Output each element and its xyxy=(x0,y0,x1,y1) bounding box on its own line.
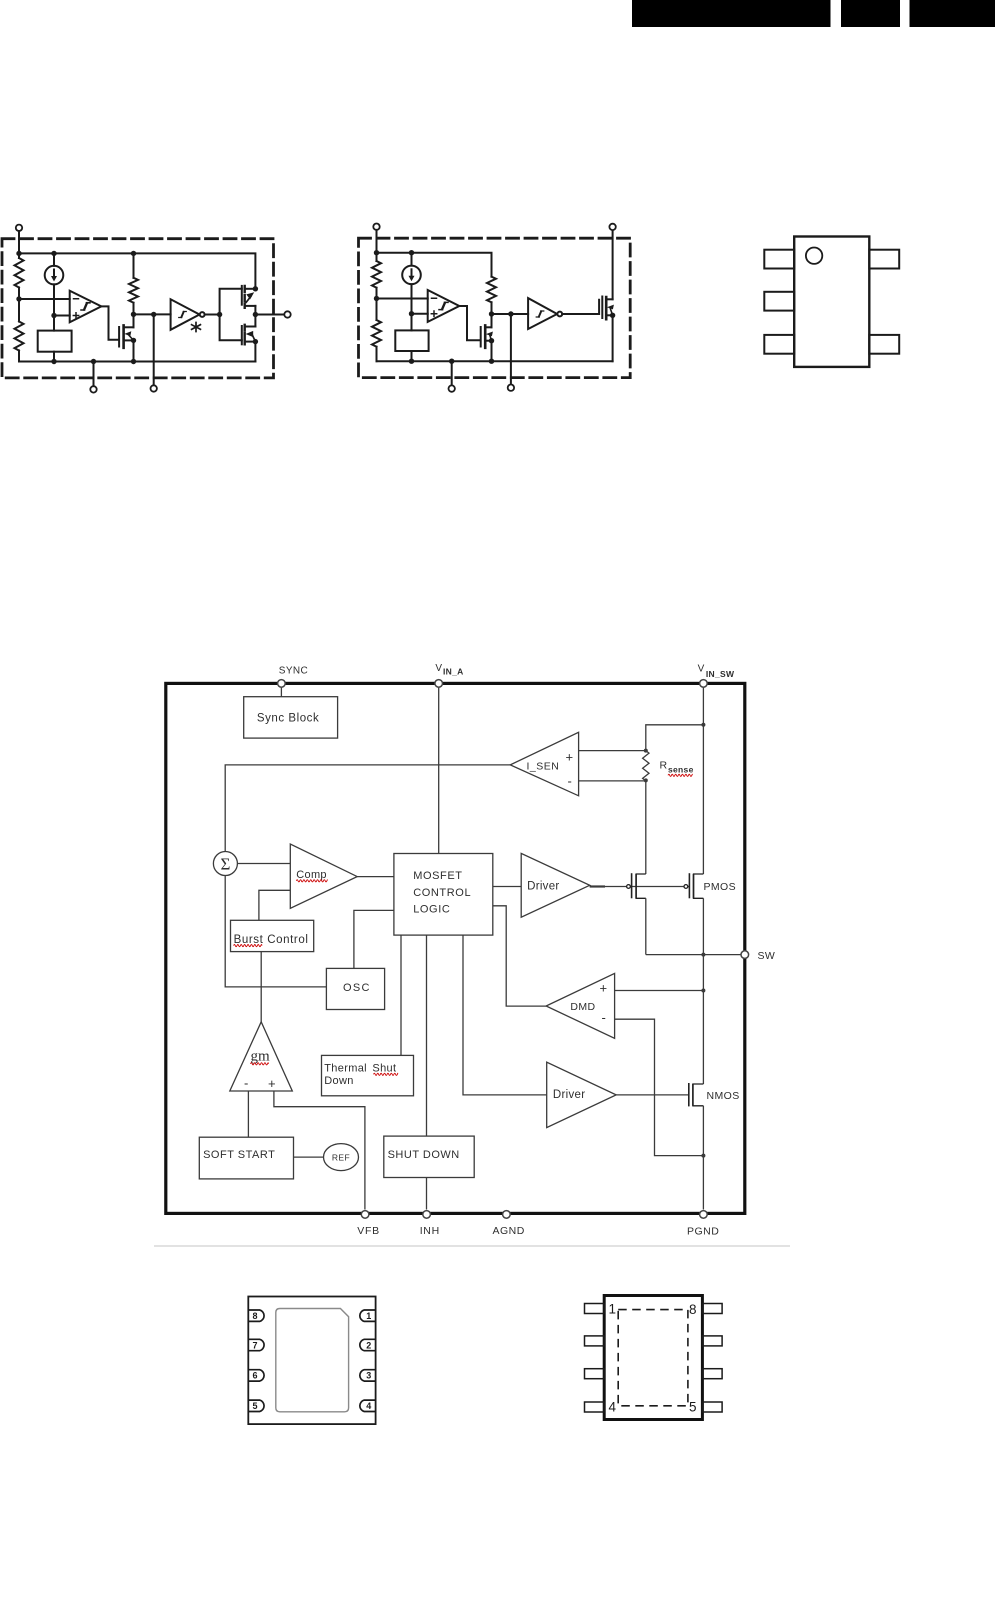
svg-text:MOSFET: MOSFET xyxy=(413,870,462,882)
current source I1 circuit 2 xyxy=(402,253,421,331)
dashed cell boundary circuit 2 xyxy=(359,238,631,377)
transistor M1 (NMOS pulldown, circuit 1) xyxy=(119,325,133,347)
package body SOT-23-5 xyxy=(794,237,869,367)
svg-text:gm: gm xyxy=(251,1049,271,1065)
wire comparator output to M1 gate circuit 2 xyxy=(459,306,479,340)
wire gm minus to SOFT START xyxy=(247,1091,249,1137)
reference block U1 (unlabeled box, circuit 2) xyxy=(395,330,428,351)
package body SOIC-8 xyxy=(604,1296,702,1420)
ground rail circuit 1 xyxy=(19,361,255,363)
node dot inverter input tap circuit 1 xyxy=(151,312,156,317)
resistor R3 (M1 drain load, circuit 2) xyxy=(487,277,496,328)
horizontal rule below diagram xyxy=(154,1245,790,1247)
svg-text:SW: SW xyxy=(758,950,776,962)
pin 5 (right top) SOT-23-5 xyxy=(869,250,899,269)
wire Burst Control to Comp lower input xyxy=(259,890,290,920)
wire DMD plus input xyxy=(615,990,704,992)
terminal T2 (ground pin, circuit 2) xyxy=(449,359,455,392)
pin 8 SOIC-8 (right) xyxy=(702,1304,722,1314)
node B dot (M1 drain, circuit 2) xyxy=(489,311,494,316)
svg-text:8: 8 xyxy=(689,1302,697,1317)
pin INH xyxy=(420,1211,440,1237)
svg-text:Driver: Driver xyxy=(553,1089,585,1101)
svg-text:4: 4 xyxy=(609,1400,617,1415)
wire comparator plus input circuit 2 xyxy=(412,313,428,315)
pin 2 DFN-8 (right) xyxy=(360,1339,376,1350)
schmitt inverter A2 circuit 2 xyxy=(528,298,562,329)
node dot rail at M1 circuit 2 xyxy=(489,359,494,364)
asterisk annotation circuit 1 xyxy=(192,323,201,332)
node dot rail left xyxy=(16,251,21,256)
wire top supply rail circuit 2 xyxy=(377,253,492,277)
node dot Rsense top xyxy=(644,749,648,753)
svg-text:Sync Block: Sync Block xyxy=(257,713,319,725)
pin 1 DFN-8 (right) xyxy=(360,1310,376,1321)
wire I_SEN plus input xyxy=(579,750,646,752)
resistor Rsense xyxy=(643,751,649,781)
SW node line xyxy=(646,954,743,956)
svg-text:-: - xyxy=(602,1010,606,1025)
svg-text:NMOS: NMOS xyxy=(707,1090,740,1102)
node dot M1 source circuit 1 xyxy=(131,338,136,343)
exposed pad DFN-8 xyxy=(276,1309,349,1412)
svg-text:+: + xyxy=(600,981,608,996)
svg-text:CONTROL: CONTROL xyxy=(413,887,471,899)
node dot rail left circuit 2 xyxy=(374,250,379,255)
wire comparator minus input circuit 1 xyxy=(19,298,70,300)
reference block U1 (unlabeled box, circuit 1) xyxy=(38,331,72,352)
svg-text:SHUT DOWN: SHUT DOWN xyxy=(388,1149,460,1161)
node dot inverter input tap circuit 2 xyxy=(508,311,513,316)
node dot M1 source circuit 2 xyxy=(489,338,494,343)
svg-text:1: 1 xyxy=(609,1302,617,1317)
svg-text:IN_A: IN_A xyxy=(443,667,464,677)
pin AGND xyxy=(493,1211,525,1237)
svg-text:2: 2 xyxy=(366,1340,371,1350)
transistor M1 (NMOS pulldown, circuit 2) xyxy=(481,325,493,347)
terminal T1 (supply, circuit 2) xyxy=(373,224,379,253)
node dot rail at I1 circuit 1 xyxy=(51,359,56,364)
wire Comp output to MOSFET control logic xyxy=(357,876,394,878)
pin 3 (left bottom) SOT-23-5 xyxy=(764,335,794,354)
resistor R2 (lower divider, circuit 2) xyxy=(372,299,381,362)
node dot NMOS source junction xyxy=(701,1154,705,1158)
svg-text:3: 3 xyxy=(366,1371,371,1381)
wire SYNC pin to Sync Block xyxy=(280,687,282,697)
node A divider tap circuit 1 xyxy=(16,296,21,301)
schmitt inverter A2 circuit 1 xyxy=(171,299,205,330)
wire Rsense bottom to PMOS source xyxy=(645,780,647,874)
pin SYNC xyxy=(278,666,309,688)
node dot Rsense bottom xyxy=(644,778,648,782)
wire box to ground rail circuit 1 xyxy=(53,352,55,362)
resistor R2 (lower divider, circuit 1) xyxy=(15,299,24,362)
wire I_SEN output feedback to summing node xyxy=(225,765,510,852)
svg-text:PGND: PGND xyxy=(687,1226,719,1238)
resistor R1 (upper divider, circuit 2) xyxy=(372,253,381,299)
comparator A1 (schmitt, circuit 1) xyxy=(70,291,102,323)
wire top supply rail circuit 1 xyxy=(19,253,255,288)
output node dot circuit 1 xyxy=(253,312,258,317)
wire inverter output to M2 gate circuit 2 xyxy=(562,300,599,314)
pin 2 (left middle) SOT-23-5 xyxy=(764,292,794,311)
pin 1 SOIC-8 (left) xyxy=(585,1304,605,1314)
block Burst Control xyxy=(231,920,314,951)
package body DFN-8 xyxy=(248,1297,375,1425)
spellcheck squiggle under Shut xyxy=(374,1073,398,1075)
pin PGND xyxy=(687,1211,719,1238)
pin 5 DFN-8 (left) xyxy=(248,1400,264,1411)
summing node circle xyxy=(213,852,237,876)
svg-text:SOFT START: SOFT START xyxy=(203,1149,275,1161)
svg-text:Thermal Shut: Thermal Shut xyxy=(324,1063,396,1075)
svg-text:Comp: Comp xyxy=(296,869,327,881)
wire Driver 2 output to NMOS gate xyxy=(616,1094,689,1096)
svg-text:Burst Control: Burst Control xyxy=(234,934,309,946)
pin 6 DFN-8 (left) xyxy=(248,1370,264,1381)
transistor M2 (open drain NMOS, circuit 2) xyxy=(602,297,614,320)
spellcheck squiggle under Comp xyxy=(296,880,327,882)
wire PMOS1 drain to SW xyxy=(645,898,647,954)
pin VIN_SW xyxy=(698,663,735,687)
wire comparator plus input circuit 1 xyxy=(54,315,70,317)
svg-text:REF: REF xyxy=(332,1152,350,1162)
resistor R1 (upper divider, circuit 1) xyxy=(15,253,24,299)
wire SOFT START to REF xyxy=(294,1156,324,1158)
IC boundary box (block diagram) xyxy=(166,683,745,1213)
comparator A1 (schmitt, circuit 2) xyxy=(428,290,460,322)
wire gm plus to VFB pin xyxy=(274,1091,365,1210)
pin VFB xyxy=(357,1211,380,1237)
pin 4 (right bottom) SOT-23-5 xyxy=(869,335,899,354)
svg-text:VFB: VFB xyxy=(357,1225,380,1237)
wire node B to inverter input circuit 1 xyxy=(134,313,171,315)
wire VIN_SW pin down right side xyxy=(702,687,704,874)
terminal T3 (input sense pin, circuit 2) xyxy=(508,314,514,391)
node B dot (M1 drain, circuit 1) xyxy=(131,312,136,317)
svg-text:R: R xyxy=(660,760,668,772)
wire I_SEN minus input xyxy=(579,780,646,782)
wire M2 source to rail circuit 2 xyxy=(612,315,614,361)
svg-text:I_SEN: I_SEN xyxy=(527,761,560,773)
block MOSFET CONTROL LOGIC xyxy=(394,854,493,936)
block SHUT DOWN xyxy=(384,1136,474,1177)
svg-text:4: 4 xyxy=(366,1401,371,1411)
terminal T2 (ground pin, circuit 1) xyxy=(90,359,96,393)
svg-text:Σ: Σ xyxy=(220,855,230,874)
svg-text:+: + xyxy=(566,750,574,765)
node dot rail mid circuit 2 xyxy=(409,250,414,255)
terminal T1 (supply, circuit 1) xyxy=(16,225,22,254)
svg-text:Down: Down xyxy=(324,1075,354,1087)
node dot plus input circuit 2 xyxy=(409,311,414,316)
svg-text:+: + xyxy=(268,1076,276,1091)
svg-text:6: 6 xyxy=(252,1371,257,1381)
wire Burst Control to gm apex xyxy=(260,952,262,1022)
svg-text:Driver: Driver xyxy=(527,881,559,893)
pin 1 (left top) SOT-23-5 xyxy=(764,250,794,269)
transistor PMOS pass device 1 xyxy=(627,873,646,898)
node dot SW junction xyxy=(701,953,705,957)
node dot rail right xyxy=(131,251,136,256)
block OSC xyxy=(326,968,384,1009)
amplifier I_SEN xyxy=(510,732,578,796)
wire DMD output to logic xyxy=(493,906,546,1006)
node dot M2 source circuit 2 xyxy=(610,313,615,318)
svg-text:1: 1 xyxy=(366,1311,371,1321)
wire M1 source to rail circuit 1 xyxy=(133,340,135,361)
wire logic to Driver 1 xyxy=(493,886,521,888)
ground rail circuit 2 xyxy=(377,360,613,362)
current source I1 circuit 1 xyxy=(45,253,64,330)
block SOFT START xyxy=(199,1137,293,1179)
pin 4 DFN-8 (right) xyxy=(360,1400,376,1411)
amplifier Comp xyxy=(290,844,357,908)
pin 5 SOIC-8 (right) xyxy=(702,1402,722,1412)
pin VIN_A xyxy=(435,663,464,687)
wire Driver 1 output to PMOS gates xyxy=(590,885,605,887)
node dot plus input circuit 1 xyxy=(51,313,56,318)
svg-text:LOGIC: LOGIC xyxy=(413,904,450,916)
wire NMOS source to PGND xyxy=(702,1106,704,1210)
pin 7 SOIC-8 (right) xyxy=(702,1336,722,1346)
spellcheck squiggle under sense xyxy=(668,774,692,776)
amplifier DMD xyxy=(546,973,615,1038)
spellcheck squiggle under gm xyxy=(251,1063,269,1065)
terminal T4 (output pin, circuit 1) xyxy=(255,311,290,317)
black redaction bar 3 xyxy=(910,0,995,27)
block Thermal Shut Down xyxy=(322,1055,414,1095)
amplifier gm error xyxy=(230,1022,292,1091)
exposed pad (dashed) SOIC-8 xyxy=(618,1310,688,1406)
transistor M2 (PMOS high side, circuit 1) xyxy=(242,286,256,315)
wire logic to Thermal Shut Down xyxy=(400,935,402,1055)
wire M1 source to rail circuit 2 xyxy=(491,341,493,362)
block REF xyxy=(324,1144,359,1171)
transistor PMOS pass device 2 xyxy=(684,873,703,898)
pin 4 SOIC-8 (left) xyxy=(585,1402,605,1412)
node dot DMD plus tap xyxy=(701,989,705,993)
svg-text:V: V xyxy=(435,663,442,674)
svg-text:SYNC: SYNC xyxy=(279,666,308,677)
dashed cell boundary circuit 1 xyxy=(2,239,274,378)
node dot rail at I1 circuit 2 xyxy=(409,359,414,364)
svg-text:V: V xyxy=(698,663,705,674)
amplifier Driver 1 (PMOS driver) xyxy=(521,853,590,917)
pin 7 DFN-8 (left) xyxy=(248,1339,264,1350)
pin 3 DFN-8 (right) xyxy=(360,1370,376,1381)
node dot rail at M1 circuit 1 xyxy=(131,359,136,364)
wire PMOS2 drain down xyxy=(702,898,704,1084)
pin 8 DFN-8 (left) xyxy=(248,1310,264,1321)
black redaction bar 2 xyxy=(841,0,900,27)
svg-text:5: 5 xyxy=(252,1401,257,1411)
wire SHUT DOWN to INH pin xyxy=(426,1178,428,1210)
svg-text:sense: sense xyxy=(668,765,694,775)
wire node B to inverter input circuit 2 xyxy=(492,313,529,315)
svg-text:OSC: OSC xyxy=(343,982,371,994)
wire comparator minus input circuit 2 xyxy=(377,298,428,300)
block Sync Block xyxy=(244,697,338,738)
node dot Rsense top tap xyxy=(701,723,705,727)
pin 3 SOIC-8 (left) xyxy=(585,1369,605,1379)
node A divider tap circuit 2 xyxy=(374,296,379,301)
svg-text:-: - xyxy=(568,774,572,789)
wire logic to SHUT DOWN (INH line upper) xyxy=(426,935,428,1136)
svg-text:INH: INH xyxy=(420,1225,440,1237)
svg-text:8: 8 xyxy=(252,1311,257,1321)
wire summing node down to OSC xyxy=(225,876,326,987)
svg-text:IN_SW: IN_SW xyxy=(706,669,735,679)
svg-text:7: 7 xyxy=(252,1340,257,1350)
svg-text:-: - xyxy=(244,1076,248,1091)
spellcheck squiggle under Burst xyxy=(234,945,262,947)
transistor M3 (NMOS low side, circuit 1) xyxy=(242,315,256,362)
wire DMD minus input xyxy=(615,1019,704,1155)
pin 1 marker dot SOT-23-5 xyxy=(806,248,822,264)
black redaction bar 1 (header logo) xyxy=(632,0,831,27)
wire inverter output to gates circuit 1 xyxy=(205,289,242,341)
amplifier Driver 2 (NMOS driver) xyxy=(547,1062,617,1127)
wire comparator output to M1 gate circuit 1 xyxy=(101,306,118,339)
pin SW xyxy=(741,950,775,962)
wire VIN_A pin to MOSFET control logic xyxy=(438,687,440,854)
node dot M3 source circuit 1 xyxy=(253,339,258,344)
wire box to ground rail circuit 2 xyxy=(411,351,413,361)
wire OSC to MOSFET control logic xyxy=(354,910,394,968)
terminal T3 (input sense pin, circuit 1) xyxy=(151,314,157,391)
svg-text:5: 5 xyxy=(689,1400,697,1415)
pin 6 SOIC-8 (right) xyxy=(702,1369,722,1379)
wire logic to Driver 2 xyxy=(463,935,547,1095)
resistor R3 (M1 drain load, circuit 1) xyxy=(129,253,138,327)
node dot M2 source circuit 1 xyxy=(253,286,258,291)
wire Rsense top connection xyxy=(646,725,704,751)
node dot rail mid xyxy=(51,251,56,256)
svg-text:AGND: AGND xyxy=(493,1225,525,1237)
pin 2 SOIC-8 (left) xyxy=(585,1336,605,1346)
svg-text:PMOS: PMOS xyxy=(704,881,737,893)
wire summing node to Comp xyxy=(237,863,290,865)
transistor NMOS sync rectifier xyxy=(689,1083,704,1106)
svg-text:DMD: DMD xyxy=(570,1001,595,1013)
terminal T4 (open drain output pin, circuit 2) xyxy=(609,224,615,300)
